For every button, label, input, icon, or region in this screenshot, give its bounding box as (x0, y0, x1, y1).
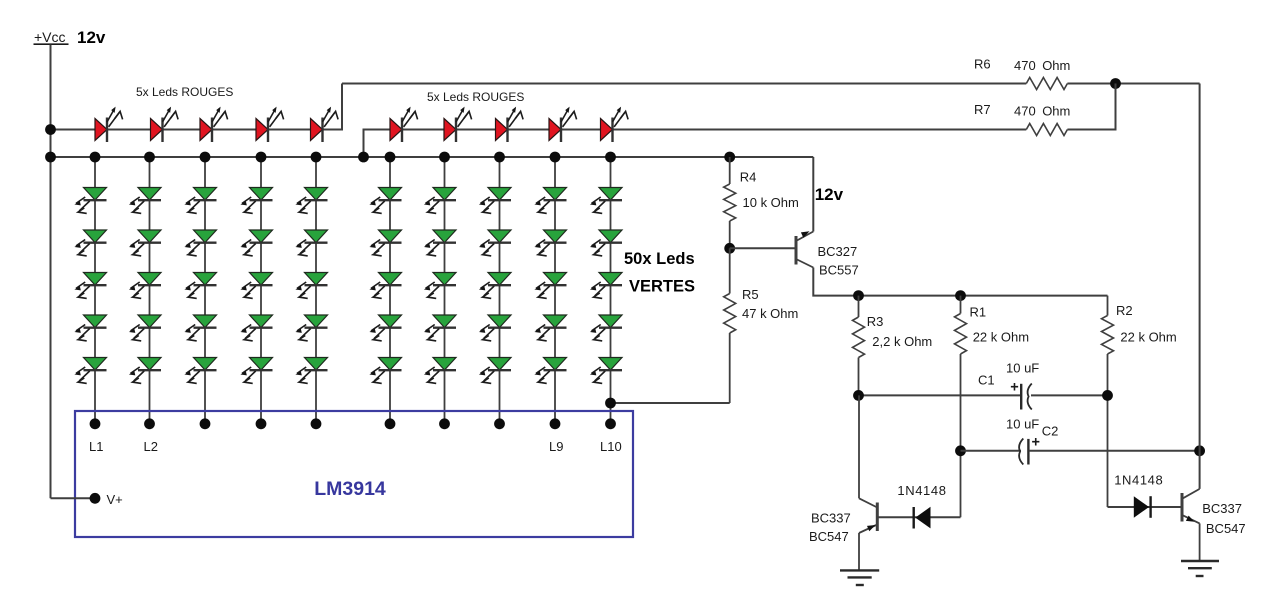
wire red LED row 1 (51, 84, 343, 130)
pin L10 dot (605, 418, 616, 429)
green LED column 4 row 3 (240, 273, 272, 299)
node bus junction column 3 (200, 152, 211, 163)
svg-text:50x Leds: 50x Leds (624, 250, 695, 268)
pin L6 dot (385, 418, 396, 429)
green LED column 7 row 4 (424, 315, 456, 341)
net label +Vcc (34, 29, 69, 45)
green LED column 10 row 4 (590, 315, 622, 341)
wire R6 to corner (1067, 83, 1199, 85)
svg-text:VERTES: VERTES (629, 278, 695, 296)
node bus junction column 9 (550, 152, 561, 163)
svg-text:470 Ohm: 470 Ohm (1014, 104, 1070, 119)
node bus junction column 4 (256, 152, 267, 163)
svg-text:V+: V+ (107, 492, 123, 507)
svg-text:R7: R7 (974, 102, 991, 117)
wire base R4/R5 to Q3 (730, 247, 795, 249)
svg-text:C1: C1 (978, 373, 995, 388)
wire Q1 collector (858, 395, 860, 498)
wire C1 left (859, 394, 1021, 396)
svg-text:22 k Ohm: 22 k Ohm (1120, 330, 1176, 345)
ground (Q1) (840, 570, 879, 585)
svg-text:1N4148: 1N4148 (897, 483, 946, 498)
pin L1 dot (90, 418, 101, 429)
wire green LED column 8 (pin L8) (499, 157, 501, 424)
node junction R4/R5/base (724, 243, 735, 254)
green LED column 3 row 5 (184, 358, 216, 384)
transistor Q1 BC337 (mirrored) (859, 498, 877, 533)
green LED column 3 row 3 (184, 273, 216, 299)
wire green LED column 10 (pin L10) (610, 157, 612, 424)
capacitor C1 (1021, 384, 1032, 410)
green LED column 1 row 4 (74, 315, 106, 341)
wire Q3 collector rail (813, 268, 1107, 296)
wire green LED column 1 (pin L1) (94, 157, 96, 424)
svg-text:12v: 12v (77, 28, 106, 47)
red LED D7 (444, 107, 472, 142)
node junction rail/R1 (955, 290, 966, 301)
svg-text:10 uF: 10 uF (1006, 417, 1039, 432)
svg-text:BC327: BC327 (818, 244, 858, 259)
wire +Vcc vertical (50, 45, 52, 499)
node bus junction column 7 (439, 152, 450, 163)
svg-text:+: + (1010, 380, 1018, 396)
green LED column 3 row 1 (184, 188, 216, 214)
pin L7 dot (439, 418, 450, 429)
wire Q1 emitter to ground (858, 533, 860, 570)
svg-text:C2: C2 (1042, 424, 1059, 439)
wire L10 node to R5 (611, 402, 730, 404)
svg-text:470 Ohm: 470 Ohm (1014, 58, 1070, 73)
green LED column 6 row 2 (369, 230, 401, 256)
svg-text:L1: L1 (89, 439, 103, 454)
node junction rail/R3 (853, 290, 864, 301)
resistor R6 (1026, 78, 1067, 90)
green LED column 9 row 3 (534, 273, 566, 299)
wire C2 right (1029, 450, 1200, 452)
green LED column 9 row 4 (534, 315, 566, 341)
red LED D1 (95, 107, 123, 142)
pin L2 dot (144, 418, 155, 429)
transistor Q2 BC337 (1182, 489, 1200, 524)
wire green LED column 3 (pin L3) (204, 157, 206, 424)
pin V+ dot (90, 493, 101, 504)
green LED column 10 row 5 (590, 358, 622, 384)
node junction R6/R7 (1110, 78, 1121, 89)
svg-text:BC547: BC547 (1206, 521, 1246, 536)
svg-text:5x Leds ROUGES: 5x Leds ROUGES (427, 90, 524, 104)
svg-text:+Vcc: +Vcc (34, 29, 66, 45)
green LED column 9 row 2 (534, 230, 566, 256)
wire V+ feed (51, 497, 96, 499)
svg-text:BC337: BC337 (1202, 501, 1242, 516)
green LED column 5 row 2 (295, 230, 327, 256)
node junction R2/C1 (1102, 390, 1113, 401)
wire R7 up to node (1067, 84, 1115, 130)
svg-text:2,2 k Ohm: 2,2 k Ohm (872, 334, 932, 349)
wire top rail to R6 (342, 83, 1026, 85)
wire red LED row 2 (364, 130, 1027, 158)
svg-text:12v: 12v (815, 185, 844, 204)
green LED column 1 row 5 (74, 358, 106, 384)
red LED D4 (256, 107, 284, 142)
pin L3 dot (200, 418, 211, 429)
node bus junction column 5 (311, 152, 322, 163)
diode D12 1N4148 (1134, 496, 1151, 518)
red LED D10 (601, 107, 629, 142)
wire C1 right (1031, 394, 1108, 396)
svg-text:22 k Ohm: 22 k Ohm (973, 330, 1029, 345)
green LED column 6 row 3 (369, 273, 401, 299)
svg-text:LM3914: LM3914 (314, 478, 386, 500)
green LED column 5 row 4 (295, 315, 327, 341)
wire green LED column 6 (pin L6) (389, 157, 391, 424)
green LED column 1 row 3 (74, 273, 106, 299)
svg-text:L2: L2 (144, 439, 158, 454)
node junction Vcc/row1 (45, 124, 56, 135)
green LED column 7 row 1 (424, 188, 456, 214)
wire green LED column 5 (pin L5) (315, 157, 317, 424)
resistor R1 (960, 296, 962, 314)
resistor R3 (858, 296, 860, 317)
wire green LED column 4 (pin L4) (260, 157, 262, 424)
node bus junction column 8 (494, 152, 505, 163)
green LED column 6 row 1 (369, 188, 401, 214)
svg-text:+: + (1031, 434, 1039, 450)
red LED D9 (549, 107, 577, 142)
svg-text:R1: R1 (970, 305, 987, 320)
wire Q2 emitter to ground (1199, 523, 1201, 561)
node junction Vcc/bus (45, 152, 56, 163)
resistor R7 (1026, 124, 1067, 136)
capacitor C2 (1019, 439, 1028, 465)
green LED column 3 row 4 (184, 315, 216, 341)
green LED column 2 row 3 (129, 273, 161, 299)
green LED column 4 row 5 (240, 358, 272, 384)
green LED column 10 row 1 (590, 188, 622, 214)
wire +12v bus (51, 156, 814, 158)
pin L4 dot (256, 418, 267, 429)
transistor Q3 BC327 (796, 231, 813, 267)
node junction R3/C1/Q1 collector (853, 390, 864, 401)
green LED column 9 row 5 (534, 358, 566, 384)
green LED column 10 row 2 (590, 230, 622, 256)
wire R6 node down to Q2 (1199, 84, 1201, 489)
green LED column 2 row 1 (129, 188, 161, 214)
green LED column 7 row 3 (424, 273, 456, 299)
svg-text:10 k Ohm: 10 k Ohm (743, 195, 799, 210)
svg-text:5x Leds ROUGES: 5x Leds ROUGES (136, 85, 233, 99)
red LED D3 (200, 107, 228, 142)
wire R2 to Q2 base / D12 (1108, 506, 1183, 508)
svg-text:R3: R3 (867, 314, 884, 329)
red LED D2 (151, 107, 179, 142)
svg-text:47 k Ohm: 47 k Ohm (742, 306, 798, 321)
svg-text:R6: R6 (974, 57, 991, 72)
pin L5 dot (311, 418, 322, 429)
green LED column 2 row 5 (129, 358, 161, 384)
node bus junction column 2 (144, 152, 155, 163)
node bus junction column 6 (385, 152, 396, 163)
green LED column 9 row 1 (534, 188, 566, 214)
diode D11 1N4148 (914, 507, 931, 529)
resistor R2 (1107, 296, 1109, 316)
svg-text:R4: R4 (740, 170, 757, 185)
svg-text:1N4148: 1N4148 (1114, 473, 1163, 488)
ground (Q2) (1181, 561, 1219, 576)
green LED column 1 row 2 (74, 230, 106, 256)
node junction L10 (605, 398, 616, 409)
resistor R5 (729, 248, 731, 293)
pin L9 dot (550, 418, 561, 429)
green LED column 6 row 5 (369, 358, 401, 384)
green LED column 4 row 4 (240, 315, 272, 341)
green LED column 8 row 1 (479, 188, 511, 214)
red LED D8 (496, 107, 524, 142)
green LED column 2 row 2 (129, 230, 161, 256)
green LED column 8 row 2 (479, 230, 511, 256)
svg-text:L9: L9 (549, 439, 563, 454)
red LED D5 (311, 107, 339, 142)
green LED column 5 row 5 (295, 358, 327, 384)
green LED column 10 row 3 (590, 273, 622, 299)
node junction R1/C2 (955, 445, 966, 456)
IC U1 LM3914 box (75, 411, 633, 537)
svg-text:L10: L10 (600, 439, 622, 454)
svg-text:10 uF: 10 uF (1006, 361, 1039, 376)
green LED column 6 row 4 (369, 315, 401, 341)
node junction row2 feed (358, 152, 369, 163)
green LED column 8 row 3 (479, 273, 511, 299)
resistor R4 (729, 157, 731, 184)
green LED column 7 row 5 (424, 358, 456, 384)
wire green LED column 2 (pin L2) (149, 157, 151, 424)
node bus junction column 1 (90, 152, 101, 163)
svg-text:BC557: BC557 (819, 263, 859, 278)
red LED D6 (390, 107, 418, 142)
svg-text:R5: R5 (742, 287, 759, 302)
wire Q1 base / D11 anode (877, 516, 960, 518)
wire C2 left (961, 450, 1022, 452)
green LED column 8 row 5 (479, 358, 511, 384)
green LED column 5 row 1 (295, 188, 327, 214)
svg-text:BC337: BC337 (811, 511, 851, 526)
svg-text:R2: R2 (1116, 303, 1133, 318)
green LED column 3 row 2 (184, 230, 216, 256)
green LED column 2 row 4 (129, 315, 161, 341)
node bus junction column 10 (605, 152, 616, 163)
green LED column 7 row 2 (424, 230, 456, 256)
green LED column 1 row 1 (74, 188, 106, 214)
node junction C2/Q2 collector (1194, 445, 1205, 456)
green LED column 4 row 1 (240, 188, 272, 214)
wire green LED column 7 (pin L7) (444, 157, 446, 424)
green LED column 5 row 3 (295, 273, 327, 299)
wire 12v drop to Q3 emitter (812, 157, 814, 232)
green LED column 4 row 2 (240, 230, 272, 256)
node junction bus/R4 (724, 152, 735, 163)
pin L8 dot (494, 418, 505, 429)
svg-text:BC547: BC547 (809, 529, 849, 544)
wire green LED column 9 (pin L9) (554, 157, 556, 424)
green LED column 8 row 4 (479, 315, 511, 341)
